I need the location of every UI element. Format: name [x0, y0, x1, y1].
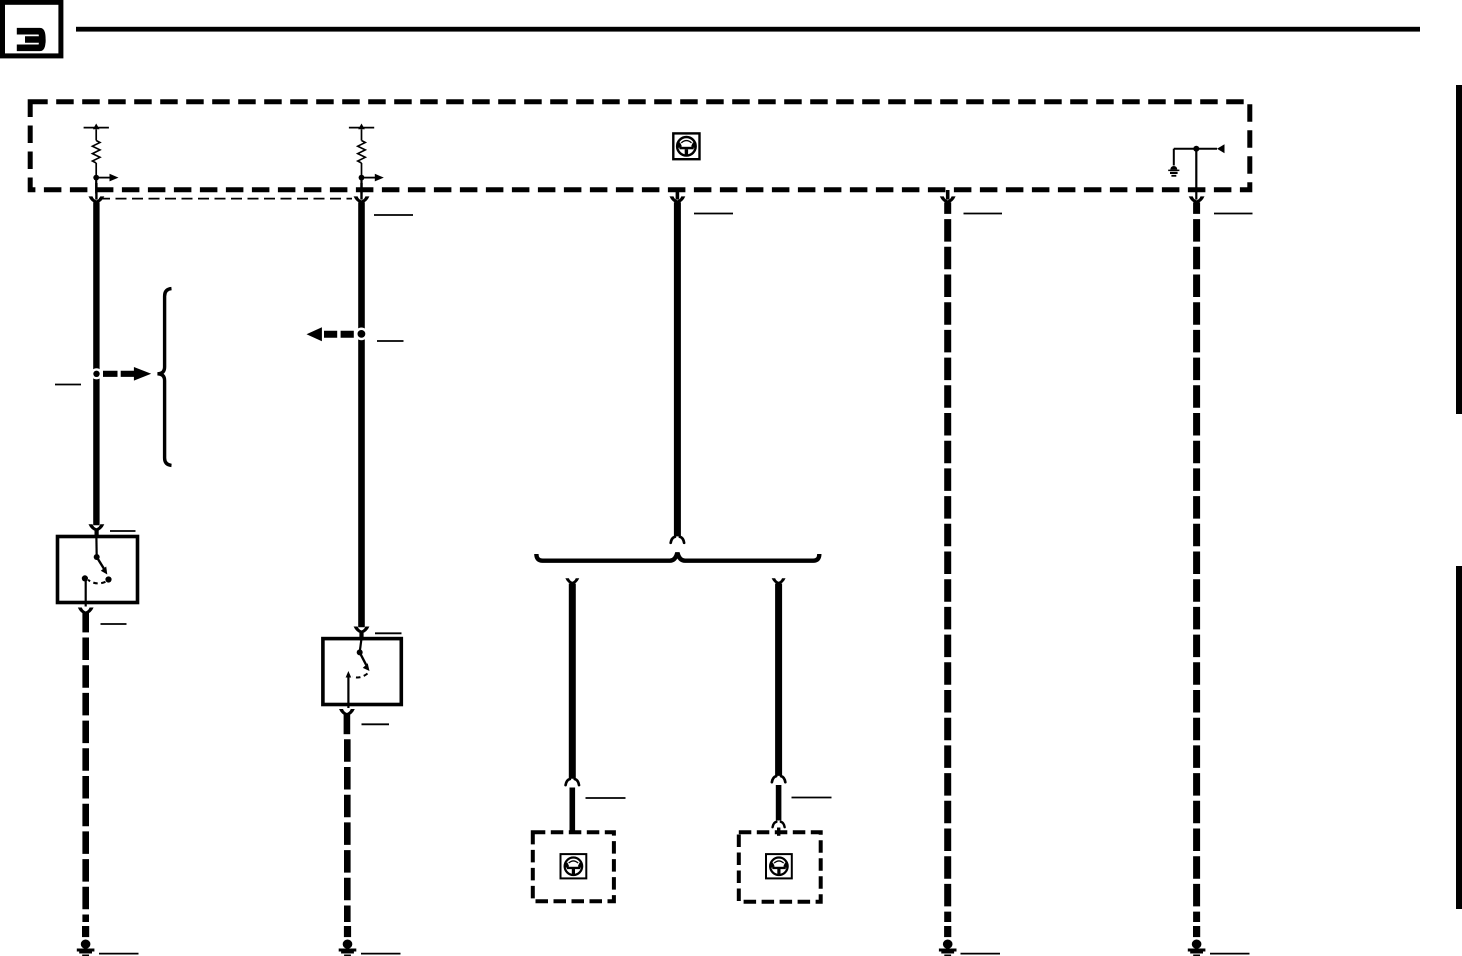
- fuse F2: [349, 124, 384, 194]
- dashed arrow left from wire 2: [307, 327, 354, 341]
- lamp branch B wire (solid): [775, 584, 782, 776]
- blank label at top of wire 5: [1214, 213, 1253, 215]
- connector at top of lamp branch B: [772, 578, 786, 584]
- blank label at top of wire 3: [694, 213, 733, 215]
- lamp E1 dashed box: [533, 832, 614, 901]
- splice brace under wire 3: [536, 553, 819, 561]
- internal ground in control unit: [1168, 144, 1224, 199]
- second connector above lamp E2: [773, 822, 785, 827]
- lamp E2 dashed box: [739, 832, 821, 902]
- dashed arrow right from wire 1: [103, 367, 151, 381]
- thin dashed jumper between wire 1 and wire 2: [99, 198, 352, 200]
- connector below switch S1: [78, 608, 94, 615]
- wire 3 stub through border: [676, 190, 680, 200]
- connector at top of lamp branch A: [565, 578, 579, 584]
- switch S2 box: [323, 639, 401, 705]
- page number tab "3": [3, 2, 61, 56]
- connector above switch S2: [354, 627, 370, 634]
- connector at top of wire 4: [940, 196, 956, 203]
- blank label at top of wire 4: [964, 213, 1003, 215]
- fuse F1: [84, 124, 119, 194]
- lamp branch A wire (solid): [569, 584, 576, 779]
- wire 3 (solid): [674, 202, 681, 536]
- lamp E1: [561, 854, 587, 878]
- wire 5 (dashed): [1193, 202, 1200, 922]
- switch S1 box: [58, 537, 138, 603]
- connector at end of wire 3: [671, 537, 684, 543]
- wire 2 (solid): [358, 202, 365, 627]
- blank label at ground of S2 branch: [361, 953, 401, 955]
- branch B tail wire: [776, 785, 782, 821]
- blank label right of wire 2 junction: [377, 340, 404, 342]
- right margin bar upper: [1456, 85, 1462, 414]
- pin stub into switch S2: [359, 633, 363, 641]
- ground at bottom of wire S2 branch: [339, 926, 357, 956]
- lamp E2: [766, 854, 792, 878]
- title rule: [76, 27, 1420, 32]
- connector at top of wire 3: [670, 196, 686, 203]
- connector at top of wire 5: [1189, 196, 1205, 203]
- connector at top of wire 2: [354, 196, 370, 203]
- blank label at top of wire 2: [374, 214, 413, 216]
- connector at end of branch A: [566, 779, 579, 785]
- switch S2 contacts and blade: [346, 640, 370, 708]
- blank label at ground of S1 branch: [99, 953, 139, 955]
- ground at bottom of wire 4: [939, 926, 957, 956]
- blank label at top of switch S1: [110, 530, 136, 532]
- pin stub into switch S1: [95, 531, 99, 539]
- connector at upper end of branch B: [772, 776, 785, 782]
- wire 2 stub through border: [360, 183, 362, 200]
- wire below S1: solid stub: [82, 612, 89, 633]
- ground at bottom of wire 5: [1188, 926, 1206, 956]
- blank label below switch S2: [362, 723, 390, 725]
- wire 4 (dashed): [944, 202, 951, 922]
- wire 1 stub through border: [95, 183, 97, 200]
- right margin bar lower: [1456, 566, 1462, 909]
- pin stub into lamp E2 box: [777, 828, 780, 836]
- blank label at top of switch S2: [375, 632, 402, 634]
- wire below S2 (dashed): [344, 739, 351, 922]
- wire 1 (solid): [93, 202, 99, 525]
- indicator lamp in control unit: [673, 133, 699, 159]
- curly brace right of arrow: [157, 289, 171, 466]
- connector at top of wire 1: [89, 196, 105, 203]
- connector below switch S2: [339, 709, 355, 716]
- blank label on branch A: [586, 797, 626, 799]
- blank label at ground of wire 5: [1210, 953, 1250, 955]
- junction ring on wire 2: [355, 328, 368, 341]
- switch S1 contacts and blade: [82, 538, 112, 607]
- blank label at ground of wire 4: [961, 953, 1001, 955]
- junction ring on wire 1: [91, 368, 102, 379]
- branch A tail wire into lamp box: [569, 788, 575, 834]
- blank label below switch S1: [101, 623, 127, 625]
- blank label on branch B: [792, 797, 832, 799]
- blank label left of wire 1 junction: [55, 384, 81, 386]
- wire below S1 (dashed): [82, 638, 89, 923]
- wire 4 stub through border: [946, 190, 950, 200]
- control unit dashed box: [30, 102, 1250, 190]
- connector above switch S1: [89, 524, 105, 531]
- ground at bottom of wire S1 branch: [77, 926, 95, 956]
- wire below S2: solid stub: [344, 713, 351, 734]
